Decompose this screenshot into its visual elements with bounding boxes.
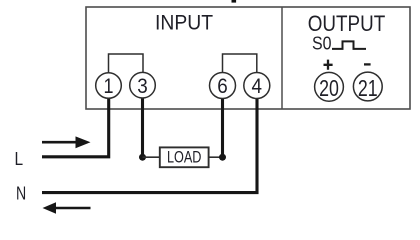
terminal 21 [353,72,382,101]
terminal 1 [96,73,122,99]
terminal 6 [210,73,236,99]
meter enclosure box [86,7,410,109]
N line arrow [43,202,91,214]
minus polarity mark [364,63,371,65]
svg-text:LOAD: LOAD [167,149,202,167]
L wire to terminal 1 [42,98,109,157]
wire terminal 6 to load junction [221,97,224,157]
link bracket terminals 6-4 [223,54,257,73]
terminal 3 [130,72,156,98]
terminal 4 [244,73,270,99]
svg-text:20: 20 [319,75,339,101]
link bracket terminals 1-3 [109,54,144,73]
input/output divider [281,7,283,109]
cropped text fragment at top edge [232,0,237,3]
svg-text:S0: S0 [312,33,332,54]
junction dot right [219,154,226,161]
junction dot left [139,154,146,161]
terminal 20 [315,72,344,101]
svg-text:6: 6 [217,75,228,98]
wire terminal 3 to load junction [141,97,144,157]
N wire to terminal 4 [42,98,257,193]
svg-text:1: 1 [104,75,114,98]
svg-text:L: L [15,148,24,169]
svg-text:3: 3 [137,75,148,98]
svg-text:INPUT: INPUT [155,11,213,35]
plus polarity mark [324,60,333,70]
S0 pulse waveform [332,41,366,49]
svg-text:N: N [16,182,26,203]
svg-text:4: 4 [252,75,263,98]
svg-text:21: 21 [358,75,378,101]
load box [160,147,209,167]
L line arrow [42,136,91,148]
load connector right [209,156,223,158]
load connector left [143,156,161,158]
